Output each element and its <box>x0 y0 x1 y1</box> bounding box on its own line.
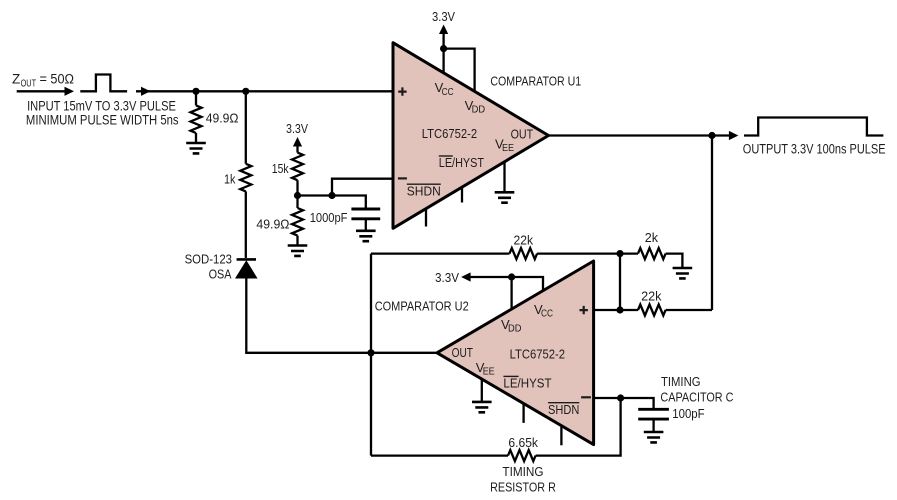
U2 plus input symbol <box>580 306 588 314</box>
svg-text:OSA: OSA <box>209 267 232 282</box>
wire U2 minus to cap <box>594 398 654 409</box>
svg-text:COMPARATOR U1: COMPARATOR U1 <box>490 74 581 89</box>
U1 minus input symbol <box>398 177 407 179</box>
node U2 VDD junction <box>508 273 515 280</box>
input pulse symbol <box>80 75 127 92</box>
wire timing bottom line <box>371 398 621 456</box>
svg-text:LE/HYST: LE/HYST <box>439 155 484 170</box>
svg-text:6.65k: 6.65k <box>508 435 538 450</box>
supply 3.3V for U2 <box>435 270 543 292</box>
U1 plus input symbol <box>398 87 406 95</box>
svg-text:OUT: OUT <box>452 345 473 360</box>
svg-text:SHDN: SHDN <box>548 402 579 417</box>
node feedback junction top <box>616 250 623 257</box>
resistor R1 1k <box>240 91 251 258</box>
wire VCC to VDD pin <box>444 49 475 91</box>
wire U1 output <box>549 134 713 136</box>
svg-text:49.9Ω: 49.9Ω <box>206 111 239 126</box>
wire feedback left vertical <box>370 254 372 456</box>
node output junction <box>708 132 715 139</box>
svg-text:COMPARATOR U2: COMPARATOR U2 <box>375 299 469 314</box>
U1 pin label VDD <box>465 98 486 116</box>
node minus branch junction <box>328 192 335 199</box>
wire diode to U2 OUT <box>246 278 437 353</box>
wire input to U1 + with mid arrow <box>136 87 393 96</box>
svg-text:RESISTOR R: RESISTOR R <box>490 479 556 494</box>
svg-text:3.3V: 3.3V <box>435 270 459 285</box>
ground below 100pF <box>644 432 664 442</box>
output arrow <box>712 131 738 140</box>
resistor 49.9ohm input termination <box>191 91 202 143</box>
ground after 2k <box>673 268 693 278</box>
capacitor 1000pF <box>351 209 380 231</box>
svg-text:100pF: 100pF <box>672 406 704 421</box>
output pulse symbol <box>744 118 883 136</box>
node threshold junction <box>294 192 301 199</box>
ground below 49.9ohm <box>186 143 206 153</box>
svg-text:CC: CC <box>541 309 553 320</box>
wire threshold node to cap <box>298 196 366 210</box>
resistor 2k <box>638 248 666 259</box>
label TIMING CAPACITOR C <box>660 374 733 404</box>
wire output feedback vertical <box>711 136 713 311</box>
svg-text:= 50Ω: = 50Ω <box>40 71 75 86</box>
U2 pin label LE/HYST with overline on LE <box>503 375 551 390</box>
ground U2 VEE <box>472 402 492 412</box>
resistor 49.9ohm lower <box>292 196 303 246</box>
node U2 minus junction <box>617 394 624 401</box>
svg-text:22k: 22k <box>641 288 662 303</box>
U1 pin label LE/HYST with overline on LE <box>439 155 484 170</box>
svg-text:CC: CC <box>442 87 454 98</box>
U2 pin label VEE <box>476 360 495 378</box>
svg-text:TIMING: TIMING <box>661 374 701 389</box>
svg-text:OUT: OUT <box>21 79 36 90</box>
svg-text:22k: 22k <box>514 232 534 247</box>
svg-text:TIMING: TIMING <box>502 464 543 479</box>
op-amp U2 comparator LTC6752-2 <box>437 261 594 445</box>
node U1 VCC junction <box>440 45 447 52</box>
svg-text:1k: 1k <box>224 171 236 186</box>
svg-text:CAPACITOR C: CAPACITOR C <box>660 390 733 405</box>
op-amp U1 comparator LTC6752-2 <box>393 43 549 229</box>
svg-text:DD: DD <box>472 104 486 115</box>
U1 VEE pin wire <box>503 162 505 193</box>
ground U1 VEE <box>495 192 515 202</box>
wire divider vertical <box>619 254 621 310</box>
svg-text:SHDN: SHDN <box>407 184 441 199</box>
svg-text:MINIMUM PULSE WIDTH 5ns: MINIMUM PULSE WIDTH 5ns <box>26 113 179 128</box>
node input junction 1 <box>192 88 199 95</box>
ground below 1000pF <box>356 231 376 241</box>
U1 SHDN pin stub <box>425 209 427 227</box>
node U2 OUT junction <box>367 349 374 356</box>
input source arrow <box>17 87 74 96</box>
svg-text:LE/HYST: LE/HYST <box>503 375 551 390</box>
U2 pin label VCC <box>534 302 553 320</box>
supply 3.3V for 15k <box>286 121 308 153</box>
U2 pin label VDD <box>501 317 522 335</box>
svg-text:3.3V: 3.3V <box>286 121 308 136</box>
supply 3.3V for U1 <box>432 9 455 72</box>
U2 SHDN pin stub <box>560 427 562 445</box>
svg-text:Z: Z <box>12 71 20 86</box>
wire U2 plus line <box>594 309 712 311</box>
svg-text:OUT: OUT <box>511 127 534 142</box>
svg-text:EE: EE <box>502 143 514 154</box>
resistor 22k feedback <box>510 248 538 259</box>
svg-text:3.3V: 3.3V <box>432 9 455 24</box>
U2 minus input symbol <box>581 396 591 398</box>
svg-text:SOD-123: SOD-123 <box>185 252 232 267</box>
svg-text:EE: EE <box>483 367 495 378</box>
diode D1 SOD-123 <box>236 259 257 278</box>
wire to U1 minus input <box>332 179 393 196</box>
U2 LE/HYST pin stub <box>522 405 524 423</box>
svg-text:1000pF: 1000pF <box>310 210 348 225</box>
capacitor C 100pF <box>638 409 669 432</box>
svg-text:2k: 2k <box>645 230 659 245</box>
resistor 22k to U2 plus <box>638 305 666 316</box>
ground below lower 49.9ohm <box>288 246 308 256</box>
resistor 15k <box>292 153 303 196</box>
U2 VEE pin wire <box>481 380 483 402</box>
svg-text:LTC6752-2: LTC6752-2 <box>422 126 477 141</box>
U1 LE/HYST pin stub <box>461 187 463 202</box>
U2 VDD pin wire <box>510 277 512 309</box>
U1 pin label SHDN with overline <box>407 184 441 199</box>
svg-text:INPUT 15mV TO 3.3V PULSE: INPUT 15mV TO 3.3V PULSE <box>27 98 176 113</box>
svg-text:LTC6752-2: LTC6752-2 <box>510 347 565 362</box>
svg-text:OUTPUT 3.3V 100ns PULSE: OUTPUT 3.3V 100ns PULSE <box>743 142 886 157</box>
U2 pin label SHDN with overline <box>548 402 579 417</box>
U1 pin label VEE <box>495 137 514 155</box>
U1 pin label VCC <box>435 80 454 98</box>
svg-text:DD: DD <box>508 324 522 335</box>
node input junction 2 <box>242 88 249 95</box>
node feedback junction bottom <box>616 306 623 313</box>
resistor 6.65k timing <box>508 450 536 461</box>
label Zout = 50ohm <box>12 71 74 89</box>
svg-text:15k: 15k <box>272 161 289 176</box>
wire feedback top line <box>371 254 682 268</box>
svg-text:49.9Ω: 49.9Ω <box>256 217 289 232</box>
